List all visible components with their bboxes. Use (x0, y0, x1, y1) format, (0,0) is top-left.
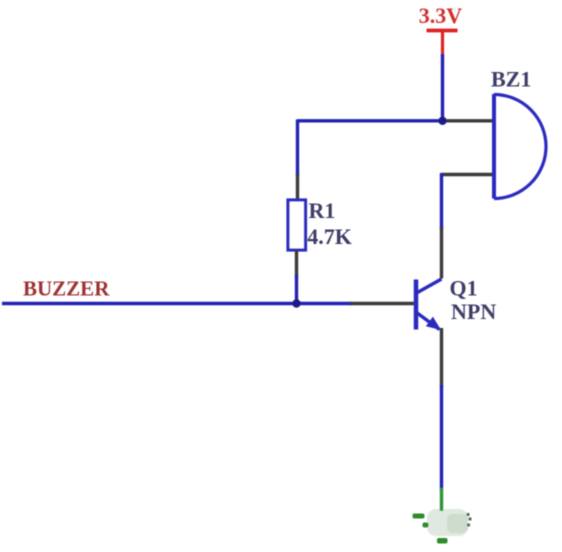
wire: collector horizontal to buzzer (black) (442, 173, 495, 176)
transistor Q1 base bar (414, 280, 419, 330)
svg-text:Q1: Q1 (450, 276, 478, 301)
transistor Q1 emitter lead (417, 313, 440, 330)
svg-text:R1: R1 (309, 198, 336, 223)
ground specks right (467, 513, 472, 527)
svg-text:3.3V: 3.3V (419, 3, 463, 28)
ground bar fragment small left (423, 523, 429, 528)
power symbol stem (red part) (441, 31, 444, 57)
resistor R1 body (288, 200, 306, 250)
wire: collector vertical blue segment (440, 173, 443, 229)
wire: top horizontal blue (junction to left corner) (297, 119, 443, 122)
transistor Q1 collector lead (417, 279, 442, 293)
ground bar fragment bottom (437, 538, 448, 544)
wire: left vertical black (into R1 top) (296, 174, 299, 201)
svg-text:BZ1: BZ1 (491, 67, 531, 92)
transistor Q1 emitter arrowhead (426, 317, 441, 330)
wire: left vertical blue (corner down toward R1) (296, 120, 299, 177)
ground bar fragment left (413, 514, 425, 519)
svg-text:BUZZER: BUZZER (23, 277, 110, 301)
wire: emitter vertical blue (440, 385, 443, 490)
wire: emitter vertical green (to ground) (440, 488, 443, 511)
ground blob (blurred watermark over ground symbol) (427, 509, 468, 536)
buzzer BZ1 flat edge (492, 94, 496, 199)
wire: top horizontal black (junction to buzzer) (442, 119, 494, 122)
power symbol 3.3V bar (427, 29, 458, 33)
wire: BUZZER horizontal black (to Q1 base) (350, 302, 416, 305)
wire: collector vertical black segment (440, 227, 443, 279)
buzzer BZ1 dome arc (494, 95, 546, 199)
junction dot (BUZZER / R1 node) (292, 299, 300, 307)
wire: below R1 blue segment to junction (295, 275, 298, 305)
wire: BUZZER horizontal blue (2, 302, 352, 305)
wire: below R1 black segment (295, 250, 298, 277)
wire: emitter vertical black (440, 328, 443, 387)
junction dot (top node) (438, 117, 446, 125)
wire: power stem blue segment (441, 54, 444, 121)
svg-text:4.7K: 4.7K (307, 224, 352, 249)
svg-text:NPN: NPN (451, 299, 496, 324)
